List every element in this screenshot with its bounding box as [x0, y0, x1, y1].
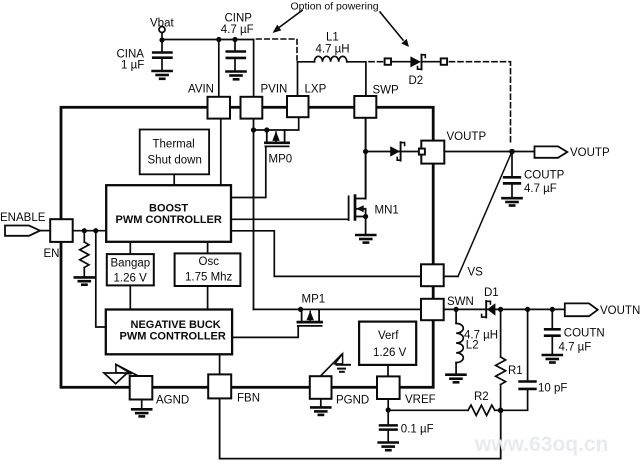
pin EN: [44, 219, 73, 260]
ground below L2: [446, 375, 465, 383]
wire MP1 gate from NEGATIVE BUCK: [232, 327, 298, 338]
ground below AGND: [132, 409, 151, 416]
wire Osc to NEGATIVE BUCK: [207, 286, 209, 310]
svg-text:R1: R1: [508, 365, 523, 377]
wire MP1 rail to SWN pin: [254, 308, 422, 310]
arrow to dashed link: [273, 11, 303, 34]
wire BOOST to Osc: [207, 242, 209, 253]
wire Bangap to NEGATIVE BUCK: [129, 285, 131, 309]
wire NEGATIVE BUCK to FBN pin: [219, 354, 221, 374]
svg-text:www.63oq.cn: www.63oq.cn: [474, 433, 608, 456]
svg-text:Option of powering: Option of powering: [291, 1, 379, 13]
wire D2 cathode: [423, 61, 441, 63]
ground below CINP: [227, 72, 246, 80]
capacitor 10pF: [501, 309, 568, 410]
transistor MP1: [298, 294, 325, 326]
wire Thermal to BOOST controller: [173, 174, 175, 185]
block Thermal Shut down U-thermal: [140, 130, 209, 175]
svg-text:PWM CONTROLLER: PWM CONTROLLER: [116, 214, 222, 226]
svg-text:AVIN: AVIN: [188, 84, 214, 96]
svg-text:0.1 µF: 0.1 µF: [401, 424, 434, 436]
capacitor 0.1uF on VREF: [380, 410, 434, 442]
svg-text:SWN: SWN: [447, 296, 474, 308]
resistor R2: [468, 391, 501, 415]
ground below EN resistor: [75, 277, 94, 284]
svg-text:10 pF: 10 pF: [538, 382, 567, 394]
svg-text:COUTN: COUTN: [564, 328, 605, 340]
node VOUTP port square: [419, 149, 425, 155]
wire Verf to VREF pin: [387, 365, 389, 377]
diode internal rectifier: [390, 142, 404, 160]
block Verf 1.26V: [359, 322, 416, 365]
ground below COUTN: [543, 355, 562, 363]
svg-text:MP1: MP1: [302, 294, 326, 306]
svg-text:PGND: PGND: [336, 395, 369, 407]
svg-text:PVIN: PVIN: [261, 84, 288, 96]
wire LXP riser: [297, 62, 299, 96]
pin PGND: [310, 376, 369, 406]
svg-text:VOUTP: VOUTP: [447, 131, 487, 143]
node D2 right terminal square: [441, 58, 447, 64]
svg-text:Thermal: Thermal: [153, 139, 195, 151]
wire ENABLE to EN pin: [40, 230, 50, 232]
svg-text:FBN: FBN: [237, 393, 260, 405]
transistor MP0: [265, 130, 292, 166]
wire MP0 source row: [254, 118, 299, 130]
node Vbat terminal: [150, 18, 174, 33]
wire BOOST to Bangap: [129, 242, 131, 254]
ground below MN1: [356, 235, 375, 243]
diode D2: [409, 55, 426, 87]
svg-text:MP0: MP0: [269, 154, 293, 166]
pin AGND: [130, 376, 190, 407]
pin AVIN: [188, 84, 230, 119]
svg-text:NEGATIVE BUCK: NEGATIVE BUCK: [131, 319, 221, 331]
svg-text:Verf: Verf: [378, 330, 399, 342]
wire MN1 gate from BOOST controller: [232, 218, 348, 220]
wire SWP node to rectifier diode to VOUTP pin: [366, 151, 422, 153]
block NEGATIVE BUCK PWM CONTROLLER: [106, 310, 232, 355]
svg-text:PWM CONTROLLER: PWM CONTROLLER: [120, 330, 226, 342]
svg-text:VS: VS: [468, 267, 484, 279]
svg-text:BOOST: BOOST: [149, 203, 188, 215]
wire MP0 gate to BOOST controller: [232, 147, 266, 198]
pin VREF: [377, 376, 436, 406]
wire VOUTP pin to output flag: [444, 151, 534, 153]
capacitor CINP: [221, 13, 254, 72]
wire AVIN drop: [218, 40, 220, 97]
capacitor COUTP: [504, 152, 564, 198]
svg-text:EN: EN: [44, 248, 60, 260]
pin LXP: [287, 84, 327, 118]
ground below COUTP: [503, 198, 522, 205]
svg-text:Osc: Osc: [199, 256, 220, 268]
svg-text:1.26 V: 1.26 V: [373, 347, 407, 359]
wire L1 to SWP: [347, 62, 366, 96]
svg-text:VOUTP: VOUTP: [570, 147, 610, 159]
wire VREF to R2 row: [388, 399, 468, 410]
wire AGND pin to ground: [141, 400, 143, 409]
svg-text:SWP: SWP: [373, 85, 400, 97]
inductor L2 4.7uH: [456, 309, 498, 374]
svg-text:1.26 V: 1.26 V: [114, 273, 148, 285]
node D2 left terminal square: [385, 58, 391, 64]
svg-text:Vbat: Vbat: [150, 18, 174, 30]
ground below CINA: [153, 71, 172, 79]
transistor MN1: [349, 196, 399, 235]
ground below 0.1uF: [379, 443, 398, 451]
svg-text:COUTP: COUTP: [524, 170, 565, 182]
svg-text:Shut down: Shut down: [148, 155, 202, 167]
svg-text:L1: L1: [326, 32, 339, 44]
wire AVIN to BOOST controller: [220, 119, 222, 185]
resistor R1: [496, 309, 523, 410]
pin SWN: [421, 296, 474, 320]
wire FBN feedback loop to R1/R2 node: [220, 399, 501, 459]
pin SWP: [354, 85, 399, 118]
symbol PGND power-ground arrow: [321, 354, 350, 375]
capacitor CINA: [117, 49, 172, 72]
svg-text:LXP: LXP: [305, 84, 327, 96]
svg-text:4.7 µF: 4.7 µF: [524, 183, 557, 195]
svg-text:VREF: VREF: [405, 394, 436, 406]
svg-text:MN1: MN1: [375, 205, 399, 217]
wire SWN output row: [444, 308, 565, 310]
wire PVIN long drop to MP1 rail: [253, 119, 255, 310]
svg-text:AGND: AGND: [156, 395, 189, 407]
block BOOST PWM CONTROLLER: [106, 185, 231, 242]
block Osc 1.75Mhz: [175, 253, 241, 286]
symbol AGND analog-ground arrow: [104, 364, 139, 383]
wire Vbat stem: [161, 33, 163, 52]
wire SWP drop to MN1 drain: [365, 118, 367, 199]
inductor L1 4.7uH: [314, 32, 349, 62]
wire dashed option-of-powering link from rail to LXP node: [257, 39, 298, 60]
pin FBN: [208, 374, 260, 404]
svg-text:1 µF: 1 µF: [121, 60, 144, 72]
wire PGND pin to ground: [320, 399, 322, 407]
IC boundary outline: [61, 107, 433, 387]
diode D1: [482, 287, 499, 317]
pin VS: [421, 264, 483, 286]
wire VS pin right stub: [444, 275, 458, 277]
resistor on EN node: [80, 231, 89, 277]
svg-text:4.7 µF: 4.7 µF: [221, 24, 254, 36]
capacitor COUTN: [545, 309, 604, 354]
svg-text:CINP: CINP: [225, 13, 253, 25]
node VOUTP port square: [419, 149, 425, 155]
svg-text:D2: D2: [409, 75, 424, 87]
wire PVIN drop: [253, 40, 255, 97]
svg-text:D1: D1: [484, 287, 499, 299]
arrow to diode D2: [380, 12, 409, 47]
svg-text:ENABLE: ENABLE: [0, 212, 46, 224]
node VOUTN output flag: [565, 303, 640, 317]
wire dashed from D2 down to VOUTP node: [450, 62, 511, 144]
pin PVIN: [241, 84, 288, 119]
svg-text:4.7 µF: 4.7 µF: [559, 341, 592, 353]
svg-text:4.7 µH: 4.7 µH: [316, 44, 350, 56]
svg-text:L2: L2: [466, 340, 479, 352]
node VOUTP output flag: [535, 146, 610, 159]
node ENABLE input flag: [0, 212, 46, 236]
wire D2 anode: [391, 61, 411, 63]
svg-text:Bangap: Bangap: [111, 257, 151, 269]
svg-text:R2: R2: [474, 391, 489, 403]
pin VOUTP: [421, 131, 486, 164]
wire Vbat rail: [162, 39, 254, 41]
ground below PGND: [311, 407, 330, 415]
wire EN pin to BOOST controller: [73, 230, 106, 232]
wire LXP to L1: [298, 61, 315, 63]
wire diagonal VS sense line: [458, 152, 512, 276]
svg-text:VOUTN: VOUTN: [600, 305, 640, 317]
wire BOOST to VS L-path: [232, 231, 422, 277]
block Bangap 1.26V: [107, 254, 154, 285]
wire D2 dashed lead-in: [369, 61, 384, 63]
svg-text:1.75 Mhz: 1.75 Mhz: [185, 272, 233, 284]
wire EN node down to NEGATIVE BUCK controller: [96, 231, 106, 327]
